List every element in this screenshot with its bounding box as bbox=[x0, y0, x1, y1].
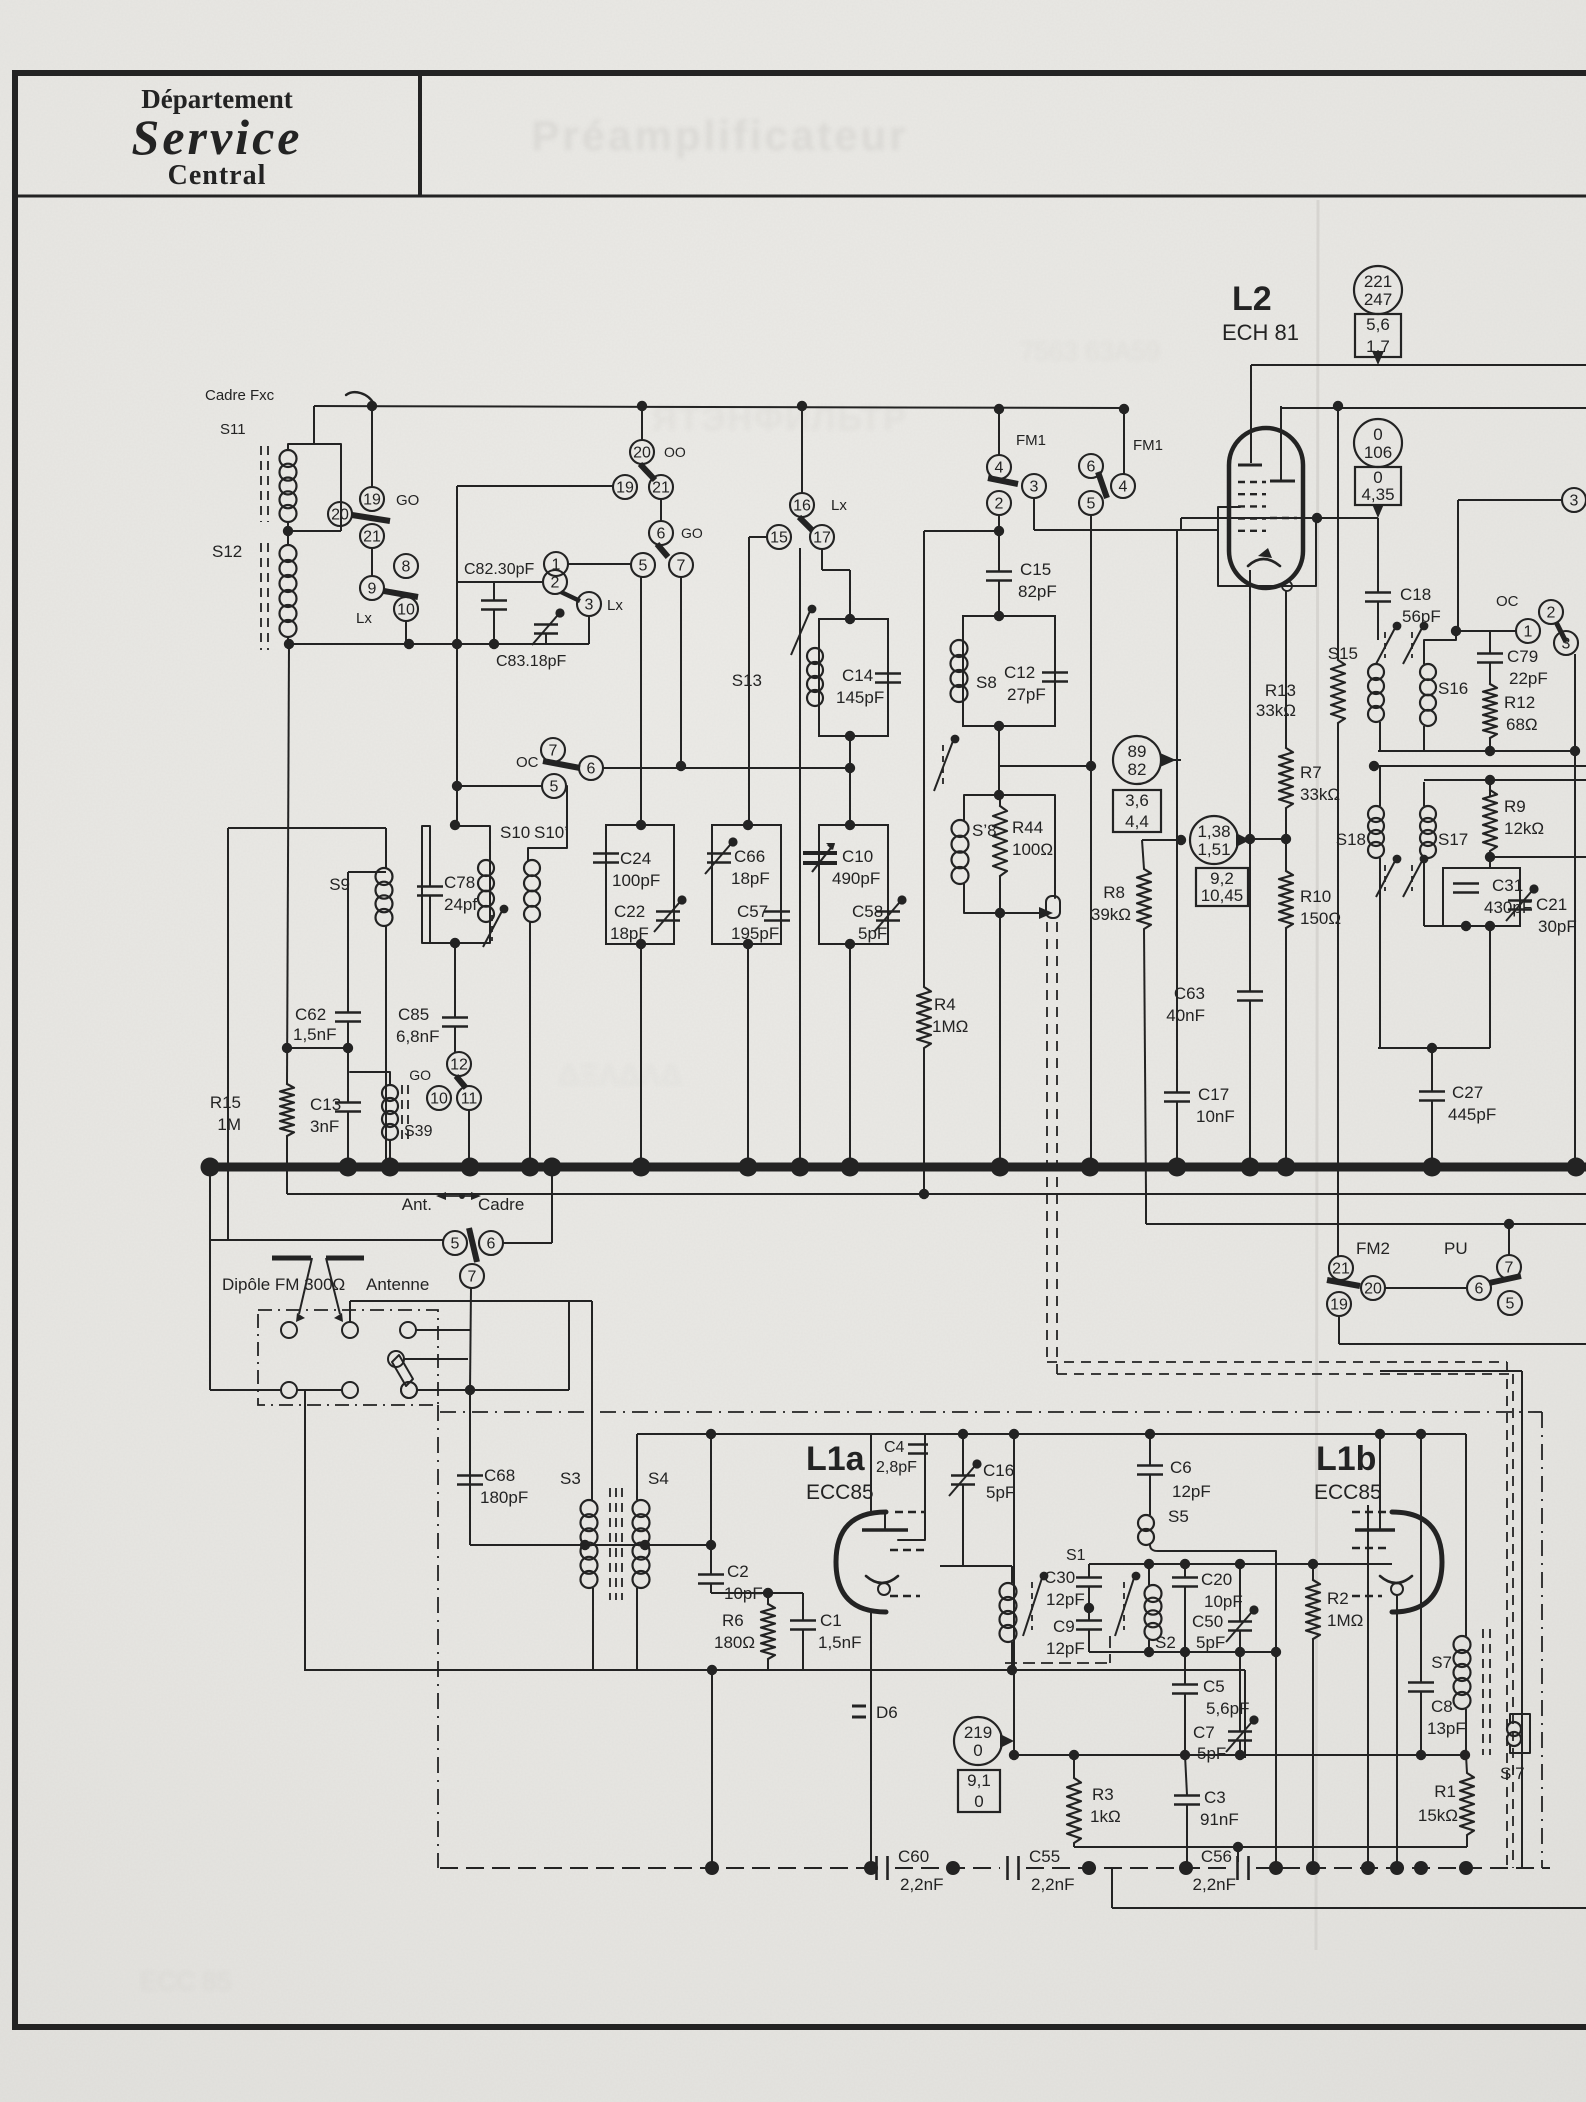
meas circle 89 82 bbox=[1113, 736, 1161, 784]
switch 9 left bbox=[360, 576, 384, 600]
svg-text:C56: C56 bbox=[1201, 1847, 1232, 1866]
wire y518 grid3 bbox=[1181, 513, 1378, 523]
label PU bbox=[1444, 1239, 1468, 1258]
dashed S1S2 box bbox=[1005, 1636, 1110, 1663]
svg-text:2,8pF: 2,8pF bbox=[876, 1459, 917, 1476]
page border top bbox=[12, 70, 1586, 76]
tube cathode bbox=[1248, 548, 1280, 566]
switch 10 bbox=[427, 1086, 451, 1110]
resistor R9 bbox=[1483, 790, 1497, 851]
label S7 bbox=[1431, 1653, 1452, 1672]
svg-text:C78: C78 bbox=[444, 873, 475, 892]
node C24 bottom bbox=[636, 939, 646, 1167]
svg-text:R15: R15 bbox=[210, 1093, 241, 1112]
switch 6 OC bbox=[579, 756, 603, 780]
capacitor C1 bbox=[790, 1593, 816, 1670]
capacitor C5 bbox=[1172, 1652, 1198, 1755]
svg-text:15kΩ: 15kΩ bbox=[1418, 1806, 1458, 1825]
node S12 bottom bbox=[284, 639, 294, 649]
svg-text:S3: S3 bbox=[560, 1469, 581, 1488]
svg-text:6: 6 bbox=[587, 761, 596, 778]
svg-text:1MΩ: 1MΩ bbox=[1327, 1611, 1363, 1630]
FM box top dashed bbox=[440, 1411, 1542, 1413]
svg-text:Lx: Lx bbox=[356, 610, 372, 627]
wire wireB to sw19L bbox=[371, 406, 373, 487]
capacitor C31 bbox=[1453, 884, 1479, 893]
wire sw19 down bbox=[1339, 1316, 1586, 1344]
svg-text:12kΩ: 12kΩ bbox=[1504, 819, 1544, 838]
wire ant7 down bbox=[465, 1288, 475, 1395]
svg-text:5: 5 bbox=[550, 779, 559, 796]
resistor R10 bbox=[1279, 871, 1293, 928]
label Cadre Fxc bbox=[205, 387, 275, 404]
trimmer C66 bbox=[705, 837, 738, 874]
svg-text:1,51: 1,51 bbox=[1197, 840, 1230, 859]
svg-text:C3: C3 bbox=[1204, 1788, 1226, 1807]
page border bottom bbox=[12, 2024, 1586, 2030]
switch bar 21-20 bbox=[1327, 1280, 1360, 1286]
wire ant6 to bus bbox=[503, 1167, 552, 1243]
bus node x748 bbox=[739, 1158, 758, 1177]
svg-text:C17: C17 bbox=[1198, 1085, 1229, 1104]
antenna terminal 4 bbox=[281, 1382, 297, 1398]
wire S10p top bbox=[528, 786, 567, 860]
label OC mid bbox=[516, 754, 539, 771]
label C12 27pF bbox=[1004, 663, 1046, 704]
wire A drop to tube anode bbox=[1250, 365, 1252, 463]
svg-text:Cadre: Cadre bbox=[478, 1195, 524, 1214]
svg-text:S2: S2 bbox=[1155, 1633, 1176, 1652]
trimmer C16 bbox=[949, 1434, 982, 1566]
wire OC5 left bbox=[452, 781, 542, 791]
rail node x1276 bbox=[1269, 1861, 1283, 1875]
svg-text:S18: S18 bbox=[1336, 830, 1366, 849]
svg-text:GO: GO bbox=[681, 525, 703, 541]
svg-text:C18: C18 bbox=[1400, 585, 1431, 604]
wire junction riser2 bbox=[340, 444, 342, 531]
coax plug bbox=[1046, 896, 1060, 918]
bus node x1250 bbox=[1241, 1158, 1260, 1177]
svg-text:GO: GO bbox=[409, 1067, 431, 1083]
wire plug bottom bbox=[417, 1389, 470, 1391]
label Lx left bbox=[356, 610, 372, 627]
svg-text:C63: C63 bbox=[1174, 984, 1205, 1003]
wire y1434 bbox=[637, 1429, 1466, 1439]
svg-text:Préamplificateur: Préamplificateur bbox=[531, 112, 908, 159]
capacitor C55 bbox=[1008, 1847, 1075, 1894]
core S12 bbox=[261, 543, 268, 650]
header separator line bbox=[12, 195, 1586, 198]
wire sw3 to grid bbox=[1034, 498, 1218, 530]
svg-text:R1: R1 bbox=[1434, 1782, 1456, 1801]
wire y751 bbox=[1378, 746, 1580, 756]
bus node x800 bbox=[791, 1158, 810, 1177]
label ECC85 a bbox=[806, 1481, 874, 1504]
coil S16 bbox=[1420, 640, 1436, 751]
shield corner y1412 right bbox=[1541, 1412, 1543, 1868]
switch 8 left bbox=[394, 554, 418, 578]
svg-text:OC: OC bbox=[516, 754, 539, 771]
label S7p bbox=[1500, 1764, 1525, 1783]
capacitor C27 bbox=[1419, 1048, 1445, 1167]
wire box1 top bbox=[228, 827, 386, 829]
label S15 bbox=[1328, 644, 1358, 663]
svg-text:150Ω: 150Ω bbox=[1300, 909, 1341, 928]
svg-text:15: 15 bbox=[770, 530, 788, 547]
wire 1048 link bbox=[282, 1043, 348, 1053]
svg-text:7: 7 bbox=[549, 743, 558, 760]
shield dash pair bbox=[1047, 922, 1057, 1374]
label C3 91nF bbox=[1200, 1788, 1239, 1829]
resistor R4 bbox=[917, 987, 931, 1048]
wire S1 top bbox=[940, 1566, 1012, 1583]
wire coax stub bbox=[1000, 907, 1053, 919]
capacitor C62 bbox=[293, 1005, 361, 1044]
capacitor C17 bbox=[1164, 1093, 1190, 1168]
svg-text:C1: C1 bbox=[820, 1611, 842, 1630]
switch bar 20-21 left bbox=[352, 515, 390, 521]
wire x800 to bus bbox=[799, 548, 801, 1167]
label C14 145pF bbox=[836, 666, 884, 707]
switch 4 FM1a bbox=[987, 455, 1011, 479]
wire box1 left x228 bbox=[227, 828, 229, 1240]
antenna box dashed bbox=[258, 1310, 438, 1405]
switch 6 FM1b bbox=[1079, 454, 1103, 478]
switch 6 GO bbox=[649, 521, 703, 545]
wire C68 down bbox=[469, 1485, 471, 1545]
svg-text:ECH 81: ECH 81 bbox=[1222, 320, 1299, 345]
svg-text:C27: C27 bbox=[1452, 1083, 1483, 1102]
coil S15 bbox=[1368, 602, 1384, 751]
svg-text:0: 0 bbox=[974, 1792, 983, 1811]
wire S18 col top bbox=[1379, 766, 1381, 806]
tube L1b grid dash bbox=[1352, 1547, 1390, 1549]
svg-text:33kΩ: 33kΩ bbox=[1256, 701, 1296, 720]
svg-text:0: 0 bbox=[1373, 425, 1382, 444]
wire S12 bottom drop bbox=[287, 637, 289, 644]
switch 15 bbox=[767, 525, 791, 549]
header title Central bbox=[168, 160, 267, 191]
tube L1a arc bbox=[836, 1512, 886, 1612]
meas circle 221 247 bbox=[1354, 266, 1402, 314]
dipole bars bbox=[272, 1256, 364, 1261]
capacitor C9 bbox=[1076, 1621, 1102, 1653]
wire AVC y1194 bbox=[287, 1167, 1586, 1199]
svg-text:89: 89 bbox=[1128, 742, 1147, 761]
svg-text:1,38: 1,38 bbox=[1197, 822, 1230, 841]
capacitor C3 bbox=[1174, 1755, 1200, 1868]
svg-text:L2: L2 bbox=[1232, 280, 1272, 318]
svg-text:C13: C13 bbox=[310, 1095, 341, 1114]
switch 5 FM1b bbox=[1079, 491, 1103, 515]
svg-text:1M: 1M bbox=[217, 1115, 241, 1134]
switch bar 6-5 FM1b bbox=[1098, 472, 1107, 498]
trimmer C22 bbox=[654, 895, 687, 932]
switch 5 GO bbox=[631, 553, 655, 577]
label C13 3nF bbox=[310, 1095, 341, 1136]
svg-text:C83.18pF: C83.18pF bbox=[496, 653, 566, 670]
svg-text:OO: OO bbox=[664, 444, 686, 460]
wire sw2 down bbox=[994, 515, 1004, 536]
svg-text:40nF: 40nF bbox=[1166, 1006, 1205, 1025]
resistor R8 bbox=[1137, 840, 1151, 1194]
label C20 10pF bbox=[1201, 1570, 1243, 1611]
trim core S2 bbox=[1115, 1572, 1140, 1636]
rail node x1186 bbox=[1179, 1861, 1193, 1875]
svg-text:S5: S5 bbox=[1168, 1507, 1189, 1526]
svg-text:C4: C4 bbox=[884, 1439, 905, 1456]
svg-text:C5: C5 bbox=[1203, 1677, 1225, 1696]
box C4 bbox=[871, 1434, 925, 1540]
wire FM1a drop bbox=[998, 409, 1000, 455]
label C31 430pF bbox=[1484, 876, 1532, 917]
capacitor C20 bbox=[1172, 1564, 1198, 1652]
svg-text:1kΩ: 1kΩ bbox=[1090, 1807, 1121, 1826]
tube g3 dash bbox=[1270, 517, 1297, 519]
coil S39 bbox=[350, 1072, 408, 1167]
wire S4 top bbox=[636, 1434, 638, 1500]
svg-text:5: 5 bbox=[639, 558, 648, 575]
wire top B y406 bbox=[314, 406, 1586, 408]
node C10 top bbox=[845, 820, 855, 830]
switch bar 20-21 bbox=[640, 464, 655, 480]
label S8p bbox=[972, 821, 997, 840]
svg-text:3: 3 bbox=[585, 597, 594, 614]
core S11 bbox=[261, 446, 268, 522]
trim core S10 bbox=[483, 905, 508, 947]
wire y1652 bottom bbox=[1089, 1647, 1281, 1657]
svg-text:39kΩ: 39kΩ bbox=[1091, 905, 1131, 924]
svg-text:9,1: 9,1 bbox=[967, 1771, 991, 1790]
svg-text:Ant.: Ant. bbox=[402, 1195, 432, 1214]
label C78 24pf bbox=[444, 873, 477, 914]
heater D6 dashes bbox=[852, 1706, 866, 1717]
resistor R3 bbox=[1067, 1755, 1081, 1847]
svg-text:2,2nF: 2,2nF bbox=[1193, 1875, 1236, 1894]
antenna terminal 2 bbox=[342, 1322, 358, 1338]
svg-text:21: 21 bbox=[652, 480, 670, 497]
svg-text:L1b: L1b bbox=[1316, 1440, 1376, 1478]
label R12 68 bbox=[1504, 693, 1538, 734]
svg-text:S39: S39 bbox=[404, 1123, 433, 1140]
wire ant7 to plug bbox=[469, 1390, 471, 1545]
svg-text:C6: C6 bbox=[1170, 1458, 1192, 1477]
label C6 12pF bbox=[1170, 1458, 1211, 1501]
wire S8p top bbox=[994, 766, 1004, 800]
svg-text:R7: R7 bbox=[1300, 763, 1322, 782]
svg-text:FM2: FM2 bbox=[1356, 1239, 1390, 1258]
svg-text:221: 221 bbox=[1364, 272, 1392, 291]
svg-text:30pF: 30pF bbox=[1538, 917, 1577, 936]
switch bar 12-11 bbox=[456, 1076, 466, 1088]
svg-text:4,35: 4,35 bbox=[1361, 485, 1394, 504]
svg-text:219: 219 bbox=[964, 1723, 992, 1742]
meas box 5,6 1,7 bbox=[1355, 314, 1401, 357]
svg-text:R2: R2 bbox=[1327, 1589, 1349, 1608]
switch 5 OC bbox=[542, 774, 566, 798]
svg-text:16: 16 bbox=[793, 498, 811, 515]
resistor R1 bbox=[1460, 1750, 1474, 1847]
tube L1a dashes bbox=[890, 1512, 925, 1596]
wire S11 top bbox=[288, 406, 341, 450]
switch bar ant bbox=[469, 1228, 477, 1262]
label C24 100pF bbox=[612, 849, 660, 890]
switch bar 6-7 bbox=[657, 544, 668, 557]
wire R13 bottom bbox=[1337, 723, 1339, 1257]
svg-text:10pF: 10pF bbox=[1204, 1592, 1243, 1611]
header divider bbox=[418, 73, 422, 196]
wire bus to ant bbox=[210, 1167, 443, 1390]
label C18 56pF bbox=[1400, 585, 1441, 626]
label R2 1M bbox=[1327, 1589, 1363, 1630]
resistor R12 bbox=[1483, 663, 1497, 751]
svg-text:S’7: S’7 bbox=[1500, 1764, 1525, 1783]
svg-text:5pF: 5pF bbox=[858, 924, 887, 943]
svg-text:11: 11 bbox=[461, 1091, 478, 1108]
capacitor C14 bbox=[875, 674, 901, 683]
label R15 1M bbox=[210, 1093, 241, 1134]
switch 17 bbox=[810, 525, 834, 549]
label C63 40nF bbox=[1166, 984, 1205, 1025]
box S8p bbox=[964, 795, 1055, 913]
wire OC6 right to C10 bbox=[603, 763, 855, 773]
bus node x641 bbox=[632, 1158, 651, 1177]
box C10 C58 bbox=[819, 825, 888, 944]
svg-text:C10: C10 bbox=[842, 847, 873, 866]
switch 7 ant bbox=[460, 1264, 484, 1288]
svg-text:100Ω: 100Ω bbox=[1012, 840, 1053, 859]
label C85 6,8nF bbox=[396, 1005, 439, 1046]
node C30 C9 bbox=[1084, 1587, 1094, 1620]
svg-text:20: 20 bbox=[633, 445, 651, 462]
header title Departement bbox=[141, 84, 292, 114]
svg-text:195pF: 195pF bbox=[731, 924, 779, 943]
label C57 195pF bbox=[731, 902, 779, 943]
wire FM1b5 down bbox=[1086, 515, 1096, 1167]
svg-text:2: 2 bbox=[1547, 605, 1556, 622]
wire sw5 drop to C24 box bbox=[640, 577, 642, 825]
wire C62 to S9 top bbox=[348, 872, 386, 1012]
wire OC right c3 bbox=[1574, 654, 1576, 1167]
svg-text:S15: S15 bbox=[1328, 644, 1358, 663]
label C58 5pF bbox=[852, 902, 887, 943]
svg-text:3nF: 3nF bbox=[310, 1117, 339, 1136]
svg-text:27pF: 27pF bbox=[1007, 685, 1046, 704]
tube pin circle bbox=[1282, 581, 1292, 591]
wire L1a cathode down bbox=[870, 1612, 872, 1868]
capacitor C18 bbox=[1365, 593, 1391, 602]
trimmer C21 bbox=[1506, 884, 1539, 921]
box C66 C57 bbox=[712, 825, 781, 944]
wire R13 top bbox=[1333, 401, 1343, 660]
label C5 56pF bbox=[1203, 1677, 1249, 1718]
header title Service bbox=[132, 109, 303, 165]
switch 4 FM1b bbox=[1111, 474, 1135, 498]
svg-text:247: 247 bbox=[1364, 290, 1392, 309]
label R44 100 bbox=[1012, 818, 1053, 859]
switch 10 left bbox=[394, 597, 418, 621]
svg-text:10nF: 10nF bbox=[1196, 1107, 1235, 1126]
svg-text:5pF: 5pF bbox=[986, 1483, 1015, 1502]
tube L2 outline bbox=[1229, 428, 1303, 588]
svg-text:3: 3 bbox=[1030, 479, 1039, 496]
capacitor C56 bbox=[1193, 1847, 1249, 1894]
meas box 3,6 4,4 bbox=[1113, 790, 1161, 832]
svg-text:FM1: FM1 bbox=[1133, 437, 1163, 454]
bus node x1177 bbox=[1168, 1158, 1187, 1177]
bus node x552 bbox=[543, 1158, 562, 1177]
label R4 1Mohm bbox=[932, 995, 968, 1036]
node S8 bottom bbox=[994, 721, 1004, 731]
bus node x1090 bbox=[1081, 1158, 1100, 1177]
label L1a bbox=[806, 1440, 866, 1478]
wire top A y365 bbox=[1251, 364, 1586, 366]
node S13 bottom bbox=[845, 731, 855, 825]
label S1 bbox=[1066, 1547, 1086, 1564]
svg-text:19: 19 bbox=[363, 492, 381, 509]
label D6 bbox=[876, 1703, 898, 1722]
arrow ant cadre bbox=[436, 1192, 481, 1200]
circled 3 top right bbox=[1458, 488, 1586, 631]
label S4 bbox=[648, 1469, 669, 1488]
node C57 bottom bbox=[743, 939, 753, 1167]
svg-text:C24: C24 bbox=[620, 849, 651, 868]
wire rail drop bbox=[1112, 1868, 1586, 1908]
label C83.18pF bbox=[496, 653, 566, 670]
label S2 bbox=[1155, 1633, 1176, 1652]
svg-text:19: 19 bbox=[616, 480, 634, 497]
capacitor C6 bbox=[1137, 1434, 1163, 1515]
svg-text:C16: C16 bbox=[983, 1461, 1014, 1480]
label FM1 a bbox=[1016, 432, 1046, 449]
rail node x871 bbox=[864, 1861, 878, 1875]
bus node x1576 bbox=[1567, 1158, 1586, 1177]
svg-text:ΔΞΛΔΛΔ: ΔΞΛΔΛΔ bbox=[558, 1059, 682, 1092]
resistor R2 bbox=[1306, 1564, 1320, 1868]
bus node x390 bbox=[381, 1158, 400, 1177]
wire y644 bbox=[289, 639, 589, 649]
wire x287 down to R15 bbox=[287, 644, 289, 1084]
switch 19 GO left bbox=[360, 487, 419, 511]
wire y780 S17 link bbox=[1424, 779, 1586, 781]
svg-text:R9: R9 bbox=[1504, 797, 1526, 816]
trim core S13 bbox=[791, 605, 816, 655]
resistor R7 bbox=[1279, 738, 1293, 808]
svg-text:C7: C7 bbox=[1193, 1723, 1215, 1742]
wire x304 bbox=[304, 1390, 306, 1670]
wire R4 column bbox=[923, 531, 925, 1194]
svg-text:S12: S12 bbox=[212, 542, 242, 561]
node C10 bottom bbox=[845, 939, 855, 1167]
wire S2 leads bbox=[1148, 1564, 1150, 1652]
meas box 92 1045 bbox=[1196, 868, 1248, 906]
bus node x1000 bbox=[991, 1158, 1010, 1177]
label S8 bbox=[976, 673, 997, 692]
svg-text:C22: C22 bbox=[614, 902, 645, 921]
wire L1b top lead bbox=[1367, 1505, 1369, 1868]
bus node x470 bbox=[461, 1158, 480, 1177]
svg-text:Cadre Fxc: Cadre Fxc bbox=[205, 387, 275, 404]
svg-text:5,6pF: 5,6pF bbox=[1206, 1699, 1249, 1718]
trim cores S18 S17 bottom bbox=[1376, 855, 1428, 897]
wire L1b grid bbox=[1391, 1563, 1393, 1565]
wire x711 col bbox=[706, 1434, 716, 1550]
coil S1 bbox=[1000, 1583, 1017, 1642]
wire S7 top bbox=[1465, 1434, 1467, 1636]
svg-text:2,2nF: 2,2nF bbox=[1031, 1875, 1074, 1894]
wire y1564 top bbox=[1089, 1559, 1392, 1569]
svg-text:82: 82 bbox=[1128, 760, 1147, 779]
